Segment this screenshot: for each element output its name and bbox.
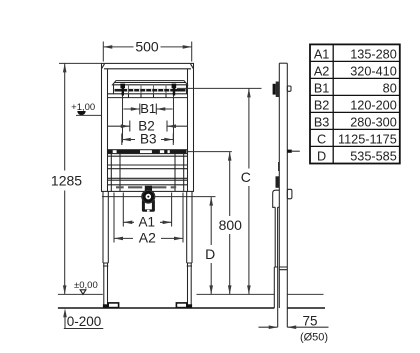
svg-text:0-200: 0-200 (67, 314, 102, 329)
level triangle at 0,00 (80, 290, 86, 295)
side profile right wall (286, 63, 288, 327)
svg-text:D: D (205, 246, 215, 262)
bracket slot ticks (129, 94, 167, 98)
right leg inner tube (188, 263, 192, 305)
75 dimension line (259, 326, 329, 328)
800 dimension line (229, 152, 231, 295)
B3 extension ticks (122, 134, 174, 146)
svg-text:75: 75 (302, 314, 317, 329)
meter level mark symbol (77, 111, 85, 115)
drain outlet center dot (147, 196, 149, 198)
A2 arrows (114, 237, 183, 241)
left leg joint ticks (103, 263, 108, 266)
leader line from crossbar to 800 dimension (188, 151, 232, 153)
drain outlet thick ring (144, 192, 153, 201)
B3 dimension line (122, 139, 174, 141)
svg-text:B2: B2 (314, 98, 330, 112)
drain clamp block (145, 186, 152, 192)
fixing bolt right (172, 84, 177, 96)
svg-text:B3: B3 (140, 132, 157, 147)
drain pipe bore (145, 199, 152, 209)
raw floor thick line (58, 307, 325, 309)
drain leader line to D dimension (102, 196, 216, 198)
basin bracket bar trapezoid (113, 81, 188, 85)
side view wall bracket (287, 86, 291, 91)
B3 arrows (122, 138, 174, 142)
svg-text:120-200: 120-200 (350, 98, 397, 112)
svg-text:C: C (317, 132, 326, 146)
mid section horizontal line 6 (108, 184, 188, 186)
side view small tick upper (278, 162, 280, 171)
bracket bar inner top line (114, 82, 186, 84)
A1 arrows (123, 221, 171, 225)
left foot plate (108, 303, 118, 308)
middle crossbar outline box (108, 150, 188, 154)
left leg outer tube (103, 191, 108, 263)
svg-text:B1: B1 (314, 81, 330, 95)
mid section horizontal line 5 (108, 179, 188, 181)
1285 dimension line (64, 63, 66, 294)
middle crossbar dark band segments (108, 150, 187, 154)
left leg inner tube (104, 263, 108, 305)
A1 dimension line (123, 221, 171, 223)
mid section horizontal line 4 (108, 177, 188, 179)
side view drain pipe upper walls (275, 207, 277, 267)
mid section horizontal line 2 (108, 164, 188, 166)
frame right inner rail (187, 69, 189, 192)
svg-text:280-300: 280-300 (350, 115, 397, 129)
side view drain bracket (276, 176, 280, 188)
svg-text:1125-1175: 1125-1175 (338, 132, 397, 146)
side view basin bolt head (273, 84, 276, 95)
D arrows (209, 197, 213, 295)
finished floor level line segments (58, 293, 324, 295)
svg-text:C: C (241, 169, 251, 185)
mid section horizontal line 3 (108, 168, 188, 170)
B2 dimension line (108, 125, 188, 127)
svg-text:A1: A1 (139, 214, 156, 229)
svg-text:320-410: 320-410 (350, 64, 397, 78)
1285 arrows (63, 63, 67, 294)
right leg joint ticks (187, 263, 192, 266)
side view drain elbow (273, 190, 280, 207)
serrated mounting rail dark bar (115, 89, 186, 92)
B1 extension ticks (140, 104, 157, 115)
side profile left wall (278, 63, 280, 308)
A2 extension lines (114, 193, 183, 243)
side view water connection tick (287, 150, 292, 153)
bracket bar lower line (108, 93, 188, 95)
800 arrows (228, 152, 232, 295)
D dimension line (210, 197, 212, 295)
A1 extension lines (123, 193, 171, 227)
frame outer box (102, 63, 194, 191)
right foot plate (176, 303, 186, 308)
C arrows (247, 88, 251, 294)
C dimension line (248, 88, 250, 294)
bracket bar bottom line (108, 97, 188, 99)
frame corner chamfer right (191, 64, 194, 69)
svg-text:B1: B1 (140, 101, 156, 116)
75 arrows (269, 325, 297, 329)
1285 top extension line (59, 62, 102, 64)
svg-text:500: 500 (135, 39, 159, 55)
drain pipe bottom notch (147, 210, 150, 212)
B1 dimension line (124, 108, 173, 110)
svg-text:B3: B3 (314, 115, 330, 129)
svg-text:A2: A2 (139, 230, 156, 246)
left leg dark end (103, 304, 108, 307)
side profile top cap (279, 62, 287, 64)
dimension 500 extension lines (103, 42, 191, 62)
0-200 arrow (64, 314, 66, 329)
frame inner top rail line (104, 68, 191, 70)
side view basin bolt plate (276, 82, 279, 98)
data table column divider (332, 44, 334, 163)
B2 arrows (121, 124, 176, 128)
B dims long extension lines (123, 96, 174, 143)
data table frame (310, 44, 400, 163)
svg-text:±0,00: ±0,00 (74, 280, 98, 291)
bracket bar end verticals (114, 85, 187, 94)
fixing bolt left (120, 84, 125, 96)
right leg outer tube (187, 191, 192, 263)
serrated rail light notches (127, 89, 170, 92)
bracket slot ticks upper (129, 85, 167, 94)
lower slotted rail gray dashes (116, 186, 176, 188)
table texts (314, 47, 397, 163)
svg-text:135-280: 135-280 (350, 47, 397, 61)
svg-text:535-585: 535-585 (350, 149, 397, 163)
meter level mark line (76, 114, 101, 116)
dimension 500 line (103, 46, 191, 48)
svg-text:A1: A1 (314, 47, 330, 61)
mid section inner verticals (111, 154, 183, 192)
0-200 dimension line (64, 328, 104, 330)
svg-text:D: D (317, 149, 326, 163)
side view lower bracket (287, 189, 292, 199)
side profile joint (279, 267, 287, 270)
svg-text:800: 800 (219, 217, 243, 233)
frame corner chamfer left (102, 64, 105, 69)
svg-text:A2: A2 (314, 64, 330, 78)
B1 arrows (131, 107, 166, 111)
svg-text:(Ø50): (Ø50) (300, 332, 328, 344)
side view drain pipe lower walls (274, 267, 277, 327)
dimension 500 arrows (103, 45, 191, 49)
svg-text:80: 80 (383, 81, 397, 95)
mid section horizontal line 1 (108, 155, 188, 157)
right leg dark end (187, 304, 192, 307)
B2 extension ticks (130, 121, 167, 132)
drain pipe socket (142, 200, 155, 212)
A2 dimension line (114, 237, 183, 239)
leader line from right bolt to C dimension (177, 87, 262, 89)
svg-text:1285: 1285 (51, 173, 82, 189)
data table row lines (310, 61, 400, 146)
drain outlet outer circle (142, 190, 155, 203)
frame left inner rail (107, 69, 109, 192)
